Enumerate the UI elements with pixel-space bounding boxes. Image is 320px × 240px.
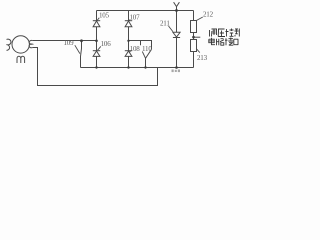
svg-text:213: 213 — [197, 54, 208, 62]
svg-text:106: 106 — [101, 40, 112, 48]
svg-text:110: 110 — [142, 45, 152, 53]
svg-text:109: 109 — [64, 39, 75, 47]
svg-text:212: 212 — [203, 11, 214, 19]
svg-text:211: 211 — [160, 19, 170, 27]
svg-text:107: 107 — [130, 13, 141, 21]
svg-text:105: 105 — [99, 11, 110, 19]
svg-text:108: 108 — [130, 45, 141, 53]
